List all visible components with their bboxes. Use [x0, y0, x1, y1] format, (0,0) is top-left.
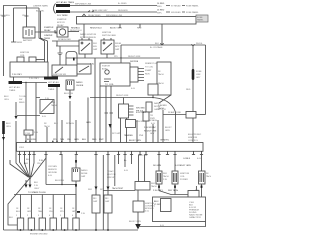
svg-text:C4 BLK: C4 BLK: [183, 158, 191, 160]
svg-text:BLK/: BLK/: [4, 96, 9, 98]
wire battery to starter relay text: [35, 31, 57, 33]
svg-text:CHOKE: CHOKE: [76, 85, 84, 87]
hot bar A2: [48, 84, 60, 87]
big arrow: [135, 224, 141, 229]
svg-text:W/O: W/O: [163, 173, 168, 175]
svg-text:STARTER: STARTER: [57, 18, 67, 21]
relay with diagonal right of switch: [77, 64, 91, 74]
wire 62 down: [61, 120, 63, 143]
main bus connector: [17, 143, 204, 152]
junction tick bus45 a: [160, 43, 163, 45]
svg-text:GRN: GRN: [27, 211, 32, 213]
wire into connector box: [158, 155, 160, 191]
svg-text:TO: TO: [105, 84, 108, 86]
fuse panel gray box: [196, 15, 208, 22]
wire 57 down: [56, 87, 58, 143]
svg-text:ONLY: ONLY: [34, 188, 40, 190]
svg-text:BLK: BLK: [24, 163, 29, 165]
spark plug 4: [50, 218, 56, 230]
svg-text:BLK/LT GRN: BLK/LT GRN: [129, 140, 141, 142]
svg-text:RED/LT GRN: RED/LT GRN: [116, 95, 129, 97]
coil box: [10, 62, 48, 77]
wire choke down arrow: [69, 90, 71, 96]
spark plug bracket: [14, 194, 77, 196]
wire y184: [46, 184, 76, 186]
svg-text:BLK: BLK: [155, 43, 160, 45]
junction dot y97: [152, 97, 153, 98]
arrows below X: [25, 185, 32, 188]
hot at all times bar 1: [56, 4, 70, 7]
wire into cap: [75, 155, 77, 168]
distributor internals: [105, 70, 109, 74]
svg-text:RFI: RFI: [93, 198, 97, 200]
svg-text:W/T GRN: W/T GRN: [112, 133, 121, 135]
wire from relay: [68, 31, 79, 33]
svg-text:SW: SW: [19, 99, 22, 101]
svg-text:BLK/ORG: BLK/ORG: [64, 93, 74, 95]
left black bar: [2, 121, 5, 134]
wire y115: [163, 114, 186, 116]
wire battery feed top-left: [4, 6, 27, 77]
svg-text:TACH: TACH: [51, 104, 57, 107]
icm feeds: [139, 155, 145, 182]
plug drop wires: [21, 195, 77, 219]
spark plug 5: [61, 218, 67, 230]
svg-text:ORG: ORG: [6, 126, 11, 128]
svg-text:INTF: INTF: [115, 46, 120, 48]
right top labels row1: [146, 5, 185, 7]
svg-text:IGNITION SW: IGNITION SW: [53, 74, 66, 76]
svg-text:TACH: TACH: [158, 73, 164, 76]
svg-text:FUSE PANEL: FUSE PANEL: [186, 5, 199, 8]
svg-text:IGNITION: IGNITION: [188, 137, 198, 139]
svg-text:TACH: TACH: [163, 175, 169, 178]
arrow 16: [15, 116, 18, 119]
svg-text:FUSE PANEL: FUSE PANEL: [186, 11, 199, 14]
svg-text:BLK: BLK: [34, 182, 39, 184]
svg-text:RED: RED: [92, 139, 97, 141]
fusible link blob: [192, 69, 195, 80]
wire second feed: [14, 7, 40, 9]
svg-text:GRY: GRY: [196, 77, 201, 79]
svg-text:CAP: CAP: [93, 48, 98, 51]
svg-text:ORG: ORG: [4, 99, 9, 101]
svg-text:GROUND: GROUND: [48, 172, 58, 174]
junction dot y184: [61, 184, 62, 185]
spark plug 2: [28, 218, 34, 230]
svg-text:WHT: WHT: [99, 139, 104, 141]
module box bottom: [133, 201, 144, 212]
wire battery drop: [26, 6, 28, 28]
svg-text:SOL TERM: SOL TERM: [57, 15, 68, 17]
svg-text:W/O: W/O: [151, 183, 156, 185]
svg-text:W/O: W/O: [93, 43, 98, 45]
svg-text:LINK: LINK: [196, 74, 201, 76]
cap box bottom 1: [92, 195, 100, 213]
svg-text:GRN: GRN: [86, 122, 91, 124]
fuse panel box: [77, 17, 197, 25]
wire coil box to bar: [13, 77, 15, 81]
spark plug 3: [39, 218, 45, 230]
svg-text:C134: C134: [25, 133, 31, 135]
cap box bottom 2: [104, 195, 112, 213]
svg-text:IGN FEED: IGN FEED: [171, 12, 181, 14]
wire feed top: [70, 5, 146, 7]
svg-text:2.9L ONLY: 2.9L ONLY: [12, 74, 23, 76]
svg-text:NOISE: NOISE: [81, 173, 88, 175]
svg-text:C201: C201: [19, 147, 25, 149]
svg-text:SWITCH FEED: SWITCH FEED: [102, 35, 117, 37]
svg-text:HOT AT ALL: HOT AT ALL: [9, 86, 21, 89]
c134 box: [24, 130, 33, 135]
wire 163 down: [162, 110, 164, 143]
arrow left wire: [2, 137, 5, 140]
cap small box: [146, 102, 152, 112]
box above y97 right: [148, 84, 158, 95]
svg-text:DK GRN: DK GRN: [153, 165, 161, 167]
capacitor symbol top cluster: [56, 41, 79, 46]
resistor R1: [172, 171, 178, 184]
svg-text:TACH: TACH: [158, 82, 164, 85]
svg-text:TERM: TERM: [16, 42, 22, 44]
pin stubs: [138, 69, 144, 81]
svg-text:W/FL: W/FL: [157, 13, 163, 15]
capacitor box lower: [72, 168, 80, 181]
wire ignition drop with terminal: [11, 8, 16, 42]
svg-text:W/IGN: W/IGN: [115, 43, 122, 45]
wire drop fuse panel to bus45: [161, 24, 163, 45]
svg-text:W/TACH: W/TACH: [66, 122, 74, 125]
svg-text:16 RED: 16 RED: [157, 10, 165, 12]
wire right vertical 193: [192, 46, 194, 143]
svg-text:4.0L ONLY: 4.0L ONLY: [136, 112, 147, 114]
node junction on battery feed: [26, 7, 27, 8]
svg-text:IGNITION: IGNITION: [102, 32, 112, 34]
svg-text:RED/LT BLU: RED/LT BLU: [70, 30, 82, 32]
spark plug 6: [73, 218, 79, 230]
junction dot: [25, 82, 26, 83]
wire 76 down: [75, 120, 77, 143]
svg-text:W/TACH: W/TACH: [149, 119, 157, 122]
svg-text:GRN/YEL: GRN/YEL: [160, 140, 170, 142]
peak mark on fuse panel: [82, 14, 86, 16]
arrows on wires: [95, 187, 110, 190]
tach box right: [157, 62, 171, 95]
spark plug 1: [17, 218, 23, 230]
wire module bottom drops: [121, 118, 127, 143]
wire into module: [137, 190, 139, 201]
svg-text:DISTRIB: DISTRIB: [130, 61, 139, 63]
svg-text:CAP: CAP: [81, 175, 86, 178]
coil terminal: [29, 57, 36, 62]
wire drop fuse panel c: [139, 24, 141, 28]
tach terminal: [17, 57, 24, 62]
tfi small box: [143, 112, 149, 121]
svg-text:BLK/LT GRN: BLK/LT GRN: [129, 221, 141, 223]
svg-text:TACH: TACH: [151, 185, 157, 188]
wire X to bottom left: [8, 178, 30, 225]
connector box left: [156, 171, 162, 184]
svg-text:OXYGEN: OXYGEN: [48, 166, 57, 168]
X converge wires: [10, 155, 46, 178]
wire left down: [3, 134, 5, 230]
svg-text:GRY: GRY: [150, 133, 155, 135]
wire routing to coil box: [159, 186, 196, 195]
wires below X: [26, 178, 30, 185]
svg-text:RED: RED: [186, 89, 191, 91]
svg-text:CONTROL: CONTROL: [188, 140, 199, 142]
wire 70 down: [69, 101, 71, 143]
distributor pin box: [130, 67, 138, 82]
svg-text:BLK/ORG: BLK/ORG: [55, 180, 65, 182]
svg-text:CAP: CAP: [115, 48, 120, 51]
wire drop fuse panel a: [83, 24, 85, 38]
tick marks on verticals: [2, 15, 29, 17]
svg-text:BLU: BLU: [16, 211, 21, 213]
svg-text:BLK/: BLK/: [6, 123, 11, 125]
diag box: [40, 100, 54, 114]
svg-text:BLK/ORG: BLK/ORG: [27, 139, 37, 141]
svg-text:RELAY: RELAY: [57, 24, 64, 27]
svg-text:GRN: GRN: [74, 139, 79, 141]
svg-text:ST RELAY: ST RELAY: [171, 5, 181, 8]
svg-text:GRN: GRN: [165, 130, 170, 132]
distributor box: [100, 63, 130, 86]
svg-text:INTERFERENCE: INTERFERENCE: [80, 37, 97, 39]
wire below cap: [75, 181, 77, 230]
svg-text:ENGINE GROUND: ENGINE GROUND: [30, 234, 48, 236]
tach diagonal: [159, 95, 171, 103]
svg-text:TACH: TACH: [206, 175, 211, 178]
junction tick bus45 b: [191, 44, 194, 46]
svg-text:BLK/: BLK/: [154, 201, 159, 203]
svg-text:STATOR: STATOR: [102, 65, 110, 68]
resistor R2: [199, 171, 206, 184]
wire pair to coil: [39, 8, 48, 62]
wire y97 with curve: [36, 98, 176, 143]
radio choke connector: [66, 80, 74, 90]
wires right to bus: [137, 120, 158, 143]
wire 88 down: [87, 98, 89, 143]
wire tfi down: [145, 121, 147, 143]
svg-text:RED: RED: [137, 28, 142, 30]
svg-text:FEED: FEED: [19, 102, 25, 104]
wire 95 long: [94, 58, 96, 143]
svg-text:SPARK PLUG: SPARK PLUG: [145, 62, 158, 65]
ignition coil box: [188, 191, 199, 198]
svg-text:BLK/LT GRN: BLK/LT GRN: [110, 28, 122, 30]
wire drop fuse panel b: [119, 24, 121, 28]
wire module top: [123, 98, 125, 105]
starter relay S1: [57, 27, 68, 37]
svg-text:W/: W/: [206, 173, 209, 175]
module box center: [119, 104, 129, 118]
svg-text:B+ FEED: B+ FEED: [118, 3, 127, 5]
svg-text:FUSE LINK GRY: FUSE LINK GRY: [92, 10, 108, 12]
svg-text:B+ VOLTAGE: B+ VOLTAGE: [150, 46, 163, 49]
relay K2: [101, 40, 114, 54]
svg-text:RADIO IGNITION: RADIO IGNITION: [80, 33, 97, 36]
svg-text:TO A/C: TO A/C: [107, 170, 114, 173]
svg-text:SENSOR: SENSOR: [48, 169, 57, 171]
wire bus45: [121, 44, 206, 46]
svg-text:TAN/RED: TAN/RED: [124, 134, 133, 137]
bottom bus right: [138, 222, 206, 227]
module stubs: [129, 106, 134, 115]
hot bar B: [9, 81, 23, 84]
plug junction dots: [20, 229, 109, 231]
2.9l tick: [77, 211, 80, 213]
svg-text:BLU: BLU: [82, 139, 87, 141]
svg-text:BLK/LT: BLK/LT: [165, 127, 172, 129]
bottom bus left: [4, 229, 139, 231]
wires below caps: [96, 213, 108, 230]
svg-text:W/: W/: [158, 71, 161, 73]
wire y117: [17, 115, 40, 117]
svg-text:RFI: RFI: [105, 198, 109, 200]
svg-text:BLK: BLK: [54, 123, 59, 125]
bus top pin marks: [25, 141, 63, 143]
svg-text:FUSE: FUSE: [196, 71, 202, 73]
tick on loop: [73, 58, 75, 61]
svg-text:MOTOR: MOTOR: [57, 22, 65, 24]
big bottom right box: [153, 197, 206, 222]
relay K1: [79, 40, 92, 54]
svg-text:TO SPARK PLUGS: TO SPARK PLUGS: [28, 191, 46, 194]
svg-text:TO COIL: TO COIL: [145, 67, 154, 69]
svg-text:TACH TEST: TACH TEST: [112, 187, 124, 190]
svg-text:TAN: TAN: [38, 210, 42, 213]
svg-text:RED/LT BLU: RED/LT BLU: [90, 28, 102, 30]
svg-text:RADIO: RADIO: [154, 102, 161, 105]
svg-text:RADIO: RADIO: [76, 81, 83, 84]
wire y41: [52, 40, 79, 42]
svg-text:W/4.0L: W/4.0L: [196, 43, 203, 45]
wire right vertical 205: [205, 45, 207, 115]
svg-text:16 RED: 16 RED: [157, 3, 165, 5]
svg-text:RUN: RUN: [145, 74, 150, 76]
svg-text:START: START: [145, 69, 152, 72]
svg-text:PANEL: PANEL: [197, 19, 204, 22]
wire 26 down: [25, 83, 27, 143]
svg-text:W/ AIR COND: W/ AIR COND: [168, 111, 181, 114]
svg-text:RED/LT GRN: RED/LT GRN: [128, 56, 141, 58]
svg-text:STARTER: STARTER: [44, 26, 54, 29]
svg-text:IGNITION: IGNITION: [180, 173, 190, 175]
svg-text:TIMES: TIMES: [9, 90, 16, 92]
svg-text:TFI: TFI: [150, 115, 154, 117]
capacitor box inside big box: [161, 199, 172, 212]
wire coil term: [36, 59, 45, 61]
svg-text:CAPACITOR: CAPACITOR: [154, 108, 166, 111]
svg-text:2.9L ONLY: 2.9L ONLY: [29, 78, 40, 80]
svg-text:POWER: POWER: [180, 179, 188, 181]
svg-text:GRY: GRY: [72, 211, 77, 213]
wire feed 2: [70, 11, 146, 13]
svg-text:W/O: W/O: [51, 102, 56, 104]
svg-text:W/O TACH: W/O TACH: [168, 189, 179, 192]
wire right corner: [196, 114, 206, 116]
svg-text:IGNITION: IGNITION: [20, 52, 30, 54]
right top labels row2: [146, 11, 185, 13]
icm box: [135, 182, 150, 191]
X center: [29, 177, 31, 179]
wire y84: [22, 82, 47, 84]
hot bar A: [44, 77, 58, 80]
svg-text:PNK: PNK: [139, 135, 144, 137]
svg-text:BLK 2.9L: BLK 2.9L: [139, 155, 148, 157]
wire 114 down: [103, 155, 115, 230]
svg-text:W/FL: W/FL: [157, 6, 163, 8]
ignition switch box: [52, 65, 77, 76]
svg-text:BLK: BLK: [9, 217, 14, 219]
svg-text:HOT AT ALL: HOT AT ALL: [48, 81, 60, 84]
wire 121 riser: [120, 45, 122, 63]
svg-text:JUMPER HARN: JUMPER HARN: [33, 5, 48, 8]
fusible link symbol: [88, 11, 94, 13]
hot at all times bar 2: [56, 10, 70, 13]
small box y115: [186, 112, 196, 119]
wire bus58: [66, 54, 160, 58]
resistor box mid: [126, 120, 136, 128]
svg-text:RED/GRN: RED/GRN: [118, 10, 128, 12]
svg-text:W/: W/: [44, 123, 47, 125]
svg-text:W/O: W/O: [88, 189, 93, 191]
junction dot bus58: [120, 57, 121, 58]
plug wire labels: [16, 208, 77, 217]
svg-text:BLK/ORG: BLK/ORG: [1, 15, 11, 17]
svg-text:TAN: TAN: [60, 138, 64, 141]
distributor bottom stubs: [100, 86, 111, 143]
wire 16 to X: [16, 121, 29, 177]
R2 wires: [201, 155, 203, 198]
wire module down: [137, 212, 139, 224]
svg-text:RADIO: RADIO: [81, 169, 88, 172]
brace: [54, 4, 56, 14]
svg-text:1.0 RED/LT GRN: 1.0 RED/LT GRN: [175, 165, 191, 167]
resistor marks: [105, 112, 114, 114]
wire switch loop: [66, 52, 77, 66]
svg-text:TO IGN: TO IGN: [19, 96, 27, 98]
wire 30 short / 47: [30, 127, 47, 143]
svg-text:TIMES: TIMES: [48, 89, 55, 91]
bus pin Ts below: [18, 151, 203, 154]
svg-text:W/FUSIBLE LINK: W/FUSIBLE LINK: [75, 4, 92, 6]
wire 36 down: [35, 83, 37, 143]
svg-text:ELECTRONIC: ELECTRONIC: [188, 134, 202, 136]
svg-text:IGN GND: IGN GND: [136, 108, 145, 110]
svg-text:RELAY: RELAY: [44, 29, 51, 32]
svg-text:BATTERY: BATTERY: [23, 39, 33, 42]
svg-text:NOISE: NOISE: [154, 106, 161, 108]
wire pin46 down: [45, 155, 47, 185]
svg-text:JUMPER: JUMPER: [44, 35, 53, 37]
svg-text:W/TACH RED: W/TACH RED: [58, 38, 71, 41]
wire y190: [103, 190, 135, 192]
wire 16 down: [15, 102, 17, 116]
battery B1: [23, 27, 35, 38]
arrow black 110: [109, 124, 112, 128]
svg-text:IGN: IGN: [93, 46, 97, 48]
svg-text:HOT AT ALL TIMES: HOT AT ALL TIMES: [56, 1, 75, 4]
wire stubs below bus mid: [119, 155, 132, 167]
svg-text:CAP: CAP: [93, 200, 98, 203]
R1 wires: [174, 155, 176, 195]
wire box to line: [152, 95, 154, 98]
wires 96 108 down: [96, 155, 108, 195]
wire 62 lower: [61, 155, 63, 185]
svg-text:RELAY FEED: RELAY FEED: [88, 14, 101, 17]
